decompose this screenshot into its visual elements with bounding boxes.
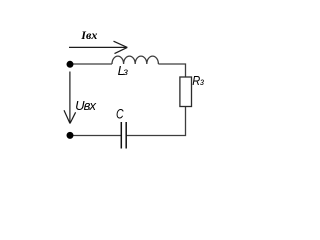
svg-text:Iвх: Iвх <box>80 28 97 42</box>
svg-text:Rз: Rз <box>192 73 205 88</box>
svg-text:C: C <box>116 106 124 122</box>
svg-text:Uвх: Uвх <box>75 98 96 113</box>
